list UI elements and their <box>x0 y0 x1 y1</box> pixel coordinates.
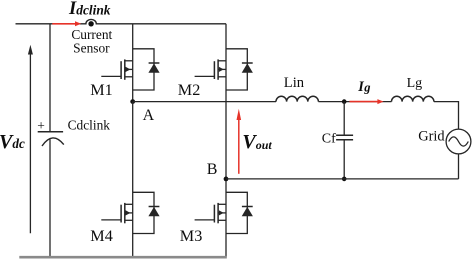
svg-text:M2: M2 <box>178 81 201 99</box>
red arrow Ig <box>350 101 379 103</box>
capacitor Cdclink curved plate <box>42 138 64 146</box>
Vdc measurement arrow <box>29 52 31 234</box>
diode D1 loop wire <box>133 49 154 90</box>
inductor Lg <box>392 96 434 101</box>
wire node A to filter <box>133 101 276 103</box>
wire top DC bus with current-sensor hop <box>16 19 227 23</box>
transistor M3 gate bar <box>213 205 215 223</box>
node B junction dot <box>224 177 229 182</box>
svg-text:M1: M1 <box>90 81 113 99</box>
svg-text:Vdc: Vdc <box>0 131 25 153</box>
svg-text:A: A <box>143 107 155 124</box>
wire grid bottom lead <box>458 154 460 179</box>
svg-text:B: B <box>207 161 218 178</box>
svg-text:Ig: Ig <box>357 79 370 95</box>
red arrow Vout <box>238 118 240 174</box>
wire node B bottom line to grid <box>226 178 459 180</box>
diode D4 loop wire <box>133 192 154 233</box>
wire Lin to Cf node and on to Lg <box>318 101 391 103</box>
current sensor dot <box>88 21 93 26</box>
svg-text:Cdclink: Cdclink <box>68 117 111 132</box>
diode D2 cathode bar <box>242 62 253 64</box>
diode D3 triangle <box>242 207 253 216</box>
wire bottom DC bus (gray) <box>19 256 227 259</box>
wire capacitor branch lower <box>49 139 51 257</box>
wire capacitor branch upper <box>49 24 51 132</box>
node Cf bottom junction dot <box>342 177 347 182</box>
diode D4 triangle <box>148 207 159 216</box>
diode D4 cathode bar <box>149 206 160 208</box>
node A junction dot <box>130 99 135 104</box>
wire Lg to grid drop <box>434 102 459 130</box>
svg-text:Grid: Grid <box>418 129 445 145</box>
transistor M2 source lead <box>218 76 226 78</box>
transistor M2 gate bar <box>213 61 215 79</box>
sine wave inside grid <box>449 137 469 146</box>
AC source Grid circle <box>446 129 471 154</box>
transistor M2 body lead with arrow <box>218 68 226 70</box>
capacitor Cf plates <box>336 134 353 136</box>
transistor M3 gate lead <box>195 219 215 221</box>
svg-text:M4: M4 <box>90 227 113 245</box>
capacitor Cf branch upper wire <box>343 102 345 136</box>
transistor M1 gate bar <box>120 61 122 79</box>
capacitor Cf branch lower wire <box>343 140 345 179</box>
svg-text:Lg: Lg <box>407 76 423 91</box>
svg-text:Idclink: Idclink <box>68 0 111 19</box>
svg-text:+: + <box>37 118 45 133</box>
transistor M1 drain lead <box>125 60 133 62</box>
svg-text:Vout: Vout <box>242 131 272 153</box>
node Cf top junction dot <box>342 99 347 104</box>
transistor M3 source lead <box>218 219 226 221</box>
capacitor Cdclink top plate <box>38 131 63 133</box>
transistor M2 drain lead <box>218 60 226 62</box>
transistor M1 body lead with arrow <box>125 68 133 70</box>
wire right leg upper rail <box>225 24 227 179</box>
transistor M4 body lead with arrow <box>125 212 133 214</box>
diode D1 triangle <box>148 63 159 72</box>
transistor M2 gate lead <box>195 75 215 77</box>
transistor M3 drain lead <box>218 203 226 205</box>
transistor M4 source lead <box>125 219 133 221</box>
diode D2 loop wire <box>226 49 247 90</box>
transistor M3 body lead with arrow <box>218 212 226 214</box>
transistor M1 source lead <box>125 76 133 78</box>
svg-text:M3: M3 <box>180 227 203 245</box>
transistor M3 channel bar <box>217 203 219 223</box>
transistor M4 channel bar <box>124 203 126 223</box>
transistor M4 drain lead <box>125 203 133 205</box>
svg-text:Cf: Cf <box>322 131 336 146</box>
wire right leg lower rail <box>225 179 227 257</box>
transistor M2 channel bar <box>217 59 219 79</box>
svg-text:Lin: Lin <box>284 75 305 91</box>
transistor M1 channel bar <box>124 59 126 79</box>
wire left leg lower rail <box>132 102 134 258</box>
svg-text:Sensor: Sensor <box>73 40 110 55</box>
transistor M4 gate lead <box>101 219 121 221</box>
transistor M4 gate bar <box>120 205 122 223</box>
diode D3 cathode bar <box>242 206 253 208</box>
red arrow Idclink <box>52 23 76 25</box>
diode D3 loop wire <box>226 192 247 233</box>
diode D1 cathode bar <box>149 62 160 64</box>
inductor Lin <box>276 96 318 101</box>
transistor M1 gate lead <box>101 75 121 77</box>
diode D2 triangle <box>242 63 253 72</box>
wire left leg upper rail <box>132 24 134 102</box>
